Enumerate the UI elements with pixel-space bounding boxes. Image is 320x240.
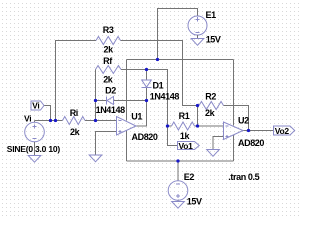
wire U2 V- pin (233, 135, 235, 161)
svg-text:D1: D1 (153, 81, 164, 91)
wire D2 right (114, 100, 147, 102)
wire Vi source stub (34, 121, 36, 123)
op-amp U1 (117, 111, 158, 142)
wire U2 V+ pin (233, 60, 235, 126)
svg-text:2k: 2k (103, 75, 114, 85)
svg-text:Vi: Vi (24, 114, 31, 124)
wire U1 non-inverting to ground (96, 132, 118, 156)
net flag Vo2 (274, 126, 295, 136)
diode D2 (96, 86, 126, 115)
wire U1 V- pin (126, 130, 128, 161)
wire R1 left lead (168, 125, 172, 127)
wire to U2 inverting input (198, 125, 224, 127)
junction D1 anode (145, 68, 148, 71)
resistor Rf (96, 56, 122, 84)
wire R2 left lead (198, 105, 200, 107)
ground below Vi (28, 142, 41, 162)
voltage source Vi (7, 114, 61, 154)
ground U2 non-inverting (207, 150, 220, 157)
svg-text:U1: U1 (131, 111, 142, 121)
resistor R1 (172, 111, 195, 141)
svg-text:1k: 1k (180, 131, 191, 141)
svg-text:2k: 2k (70, 127, 81, 137)
svg-text:Vi: Vi (32, 101, 39, 111)
net flag Vi (31, 101, 44, 111)
svg-text:2k: 2k (103, 44, 114, 54)
junction R2 left R3 (196, 104, 199, 107)
svg-text:E2: E2 (184, 172, 195, 182)
wire Rf right to node B corner (121, 70, 168, 127)
op-amp U2 (224, 116, 265, 149)
resistor R2 (199, 91, 224, 118)
wire D2 left (96, 100, 107, 102)
voltage source E2 (168, 172, 202, 207)
svg-text:AD820: AD820 (132, 132, 158, 142)
net flag Vo1 (178, 141, 200, 151)
wire R3 left (56, 41, 97, 121)
svg-text:1N4148: 1N4148 (96, 105, 126, 115)
svg-text:AD820: AD820 (238, 138, 264, 148)
svg-text:15V: 15V (206, 35, 221, 45)
svg-text:SINE(0 3.0 10): SINE(0 3.0 10) (7, 144, 61, 154)
svg-text:U2: U2 (238, 116, 249, 126)
ground U1 non-inverting (89, 155, 102, 162)
junction node A on input wire (94, 119, 97, 122)
resistor Ri (63, 108, 86, 137)
wire Vo1 branch (168, 126, 178, 146)
ground below E1 (191, 35, 204, 45)
wire V- rail (127, 160, 234, 162)
wire E2 stub (177, 161, 179, 181)
svg-text:R2: R2 (205, 91, 216, 101)
junction E2 on V- rail (176, 159, 179, 162)
junction R2 right U2 output (247, 129, 250, 132)
wire Vi to Ri (35, 120, 63, 122)
svg-text:E1: E1 (206, 10, 217, 20)
wire Vi flag stub (44, 106, 51, 121)
svg-text:R3: R3 (103, 25, 114, 35)
svg-text:Rf: Rf (103, 56, 113, 66)
wire E1 top feed (158, 9, 198, 60)
voltage source E1 (188, 10, 221, 45)
wire R2 right to U2 output (224, 106, 249, 131)
wire U1 V+ pin (126, 60, 128, 121)
svg-text:2k: 2k (205, 108, 216, 118)
wire R2-R1 junction vertical (197, 106, 199, 127)
wire U1 output up to diodes (136, 101, 147, 127)
junction E1 on V+ rail (156, 58, 159, 61)
svg-text:D2: D2 (105, 86, 116, 96)
svg-text:1N4148: 1N4148 (150, 91, 180, 101)
spice directive (228, 172, 259, 182)
wire D1 anode stub (146, 70, 148, 81)
wire U2 non-inverting to ground (213, 137, 224, 150)
svg-text:15V: 15V (187, 197, 202, 207)
junction node R3 left (54, 119, 57, 122)
diode D1 (142, 80, 180, 101)
wire R3 right to R2 node (121, 41, 198, 106)
svg-text:Vo2: Vo2 (275, 126, 290, 136)
junction D1 cathode D2 U1 out (145, 99, 148, 102)
junction node Vi flag (49, 119, 52, 122)
resistor R3 (96, 25, 121, 54)
junction node B R1 left (166, 124, 169, 127)
wire R1 right lead (195, 125, 198, 127)
wire V+ rail (127, 59, 234, 61)
svg-text:.tran 0.5: .tran 0.5 (228, 172, 259, 182)
svg-text:R1: R1 (179, 111, 190, 121)
svg-text:Ri: Ri (70, 108, 78, 118)
junction node A on D2 wire (94, 99, 97, 102)
svg-text:Vo1: Vo1 (179, 141, 194, 151)
wire node A rail (95, 70, 97, 121)
ground below E2 (172, 200, 185, 208)
junction R1 right U2 input (196, 124, 199, 127)
wire D1 cathode stub (146, 88, 148, 101)
wire U2 output (243, 130, 274, 132)
wire Ri to U1 inverting input (85, 120, 117, 122)
